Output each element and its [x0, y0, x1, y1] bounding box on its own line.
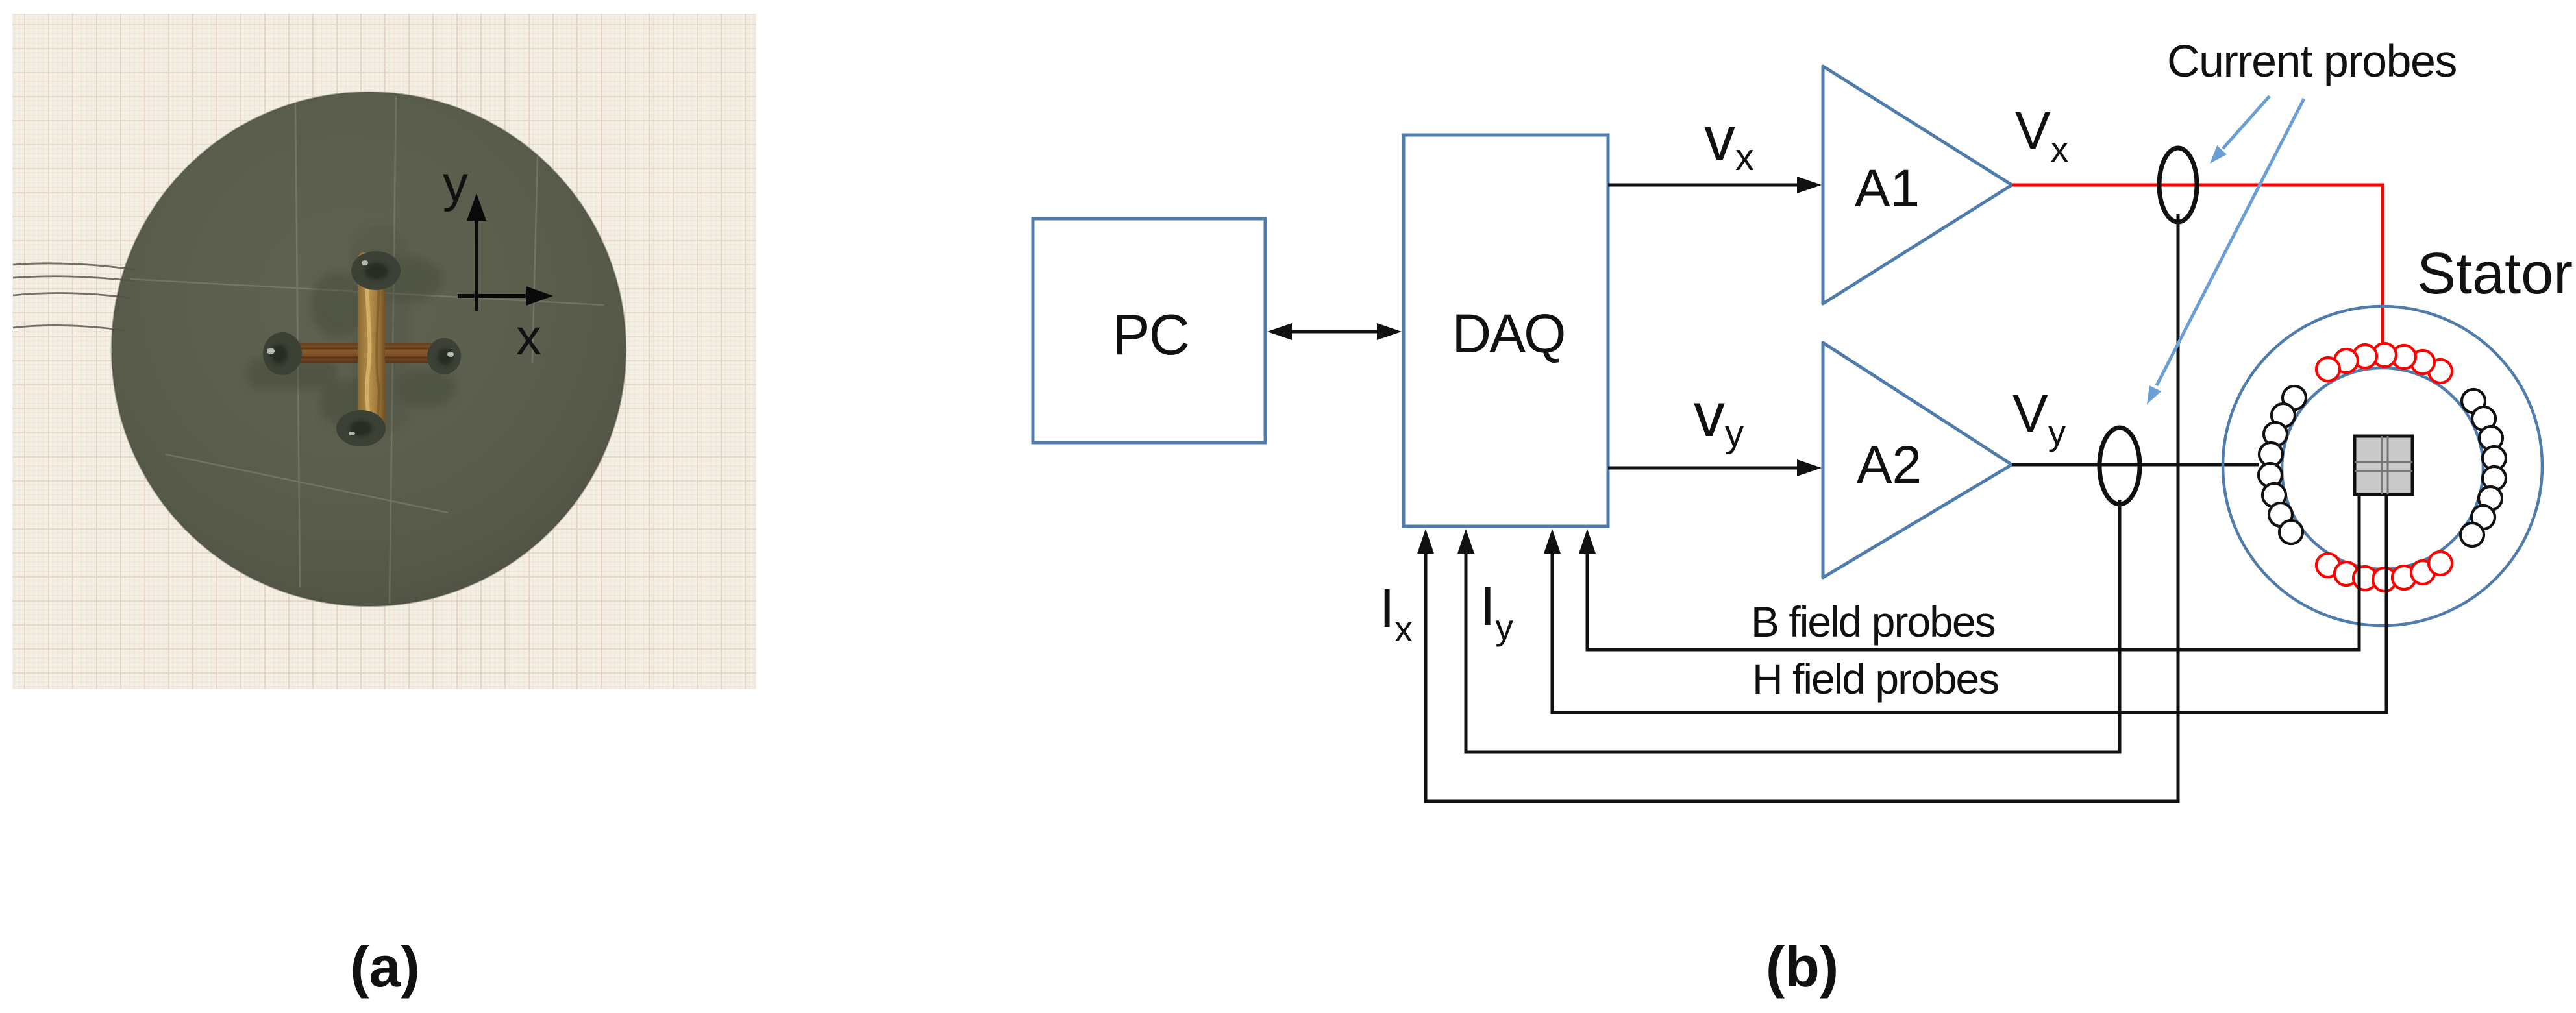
scratch lines on disc: [130, 96, 604, 604]
svg-text:Vy: Vy: [2012, 384, 2066, 452]
svg-text:DAQ: DAQ: [1452, 303, 1564, 364]
pointer arrow to probe 1: [2223, 96, 2270, 149]
solder blob right: [427, 338, 461, 374]
lead wires entering photo at left: [13, 263, 136, 330]
current probe 2 tail: [2118, 500, 2122, 752]
solder blob top: [351, 251, 401, 290]
solder blob bottom: [336, 410, 386, 446]
sensor cross: horizontal copper bar: [275, 343, 454, 363]
svg-text:y: y: [443, 155, 468, 212]
DAQ box: [1404, 135, 1608, 526]
wire v_x: [1608, 184, 1802, 187]
stator inner circle: [2282, 368, 2483, 569]
stator winding bottom (red): [2316, 554, 2340, 577]
graph paper background: [12, 14, 756, 689]
svg-text:A2: A2: [1857, 435, 1922, 494]
B field probe wire: [1587, 494, 2359, 650]
svg-text:B field probes: B field probes: [1751, 598, 1995, 646]
current probe 2 (ellipse): [2099, 428, 2140, 504]
H field probe wire: [1552, 494, 2386, 713]
svg-text:x: x: [516, 308, 541, 365]
stator winding left (black): [2283, 386, 2306, 409]
solder blob left: [263, 332, 302, 375]
svg-text:(a): (a): [350, 934, 420, 999]
svg-text:H field probes: H field probes: [1752, 655, 1998, 703]
sensor cross: vertical copper bar: [358, 252, 385, 426]
svg-text:vx: vx: [1704, 104, 1754, 178]
I_x wire: [1426, 548, 2178, 801]
sample disc: [112, 92, 626, 606]
PC-DAQ double arrow: [1289, 330, 1381, 334]
svg-text:Iy: Iy: [1480, 576, 1513, 647]
svg-text:Current probes: Current probes: [2167, 36, 2457, 86]
current probe 1 (ellipse): [2159, 148, 2197, 222]
stator winding top (red): [2429, 360, 2452, 383]
current probe 1 tail: [2177, 214, 2180, 801]
svg-text:Vx: Vx: [2015, 101, 2068, 169]
x-axis arrowhead: [526, 286, 553, 306]
svg-text:vy: vy: [1694, 380, 1744, 455]
svg-text:PC: PC: [1112, 302, 1189, 367]
pointer arrow to probe 2: [2157, 99, 2304, 385]
axis arrows drawn on photo: [458, 217, 527, 311]
sensor square in stator: [2355, 436, 2412, 494]
wire V_y to stator: [2012, 463, 2259, 467]
PC box: [1033, 219, 1265, 443]
svg-text:Stator: Stator: [2417, 241, 2573, 306]
svg-text:(b): (b): [1766, 934, 1839, 999]
I_y wire: [1466, 500, 2120, 752]
svg-text:A1: A1: [1855, 159, 1920, 218]
op-amp A2: [1823, 343, 2012, 578]
shadow of sensor cross: [247, 227, 456, 435]
glints: [267, 260, 454, 435]
wire v_y: [1608, 467, 1802, 470]
y-axis arrowhead: [467, 193, 486, 221]
stator winding right (black): [2462, 389, 2485, 413]
red wire Vx to stator: [2012, 185, 2383, 354]
stator outer circle: [2223, 306, 2542, 626]
op-amp A1: [1823, 66, 2012, 304]
svg-text:Ix: Ix: [1380, 578, 1413, 649]
